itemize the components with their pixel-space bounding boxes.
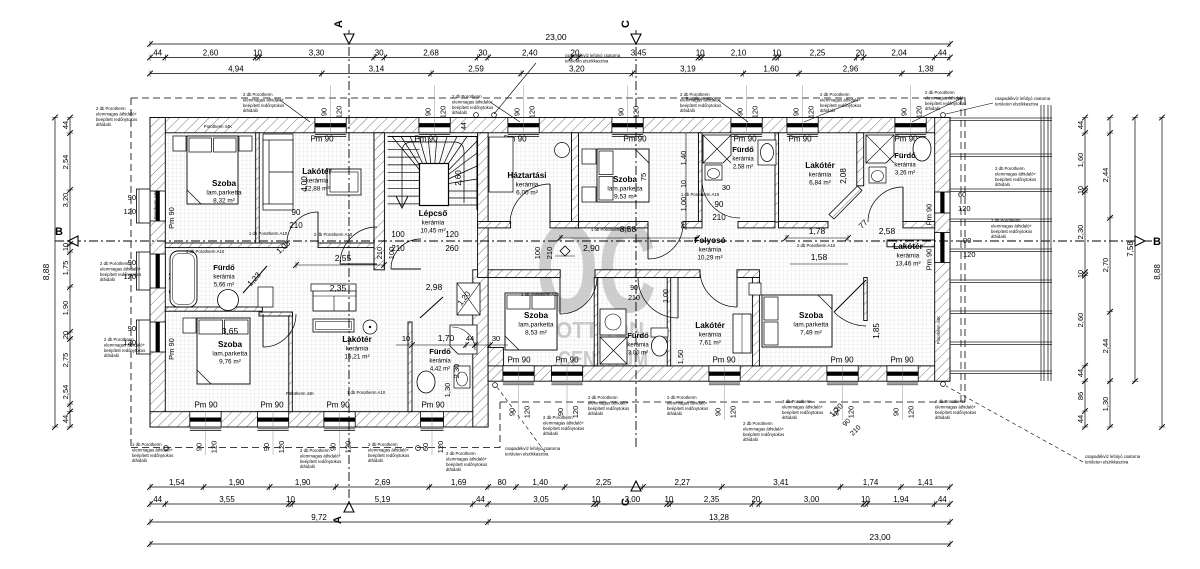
svg-text:áthidaló: áthidaló [104,353,120,358]
svg-text:23,00: 23,00 [869,532,891,542]
svg-text:2,96: 2,96 [843,65,859,74]
svg-text:Pm 90: Pm 90 [167,207,176,229]
svg-text:44: 44 [1076,121,1085,129]
svg-text:B: B [1153,236,1161,248]
svg-text:Lakótér: Lakótér [893,242,923,251]
svg-text:áthidaló: áthidaló [543,431,559,436]
svg-text:Pm 90: Pm 90 [167,338,176,360]
svg-text:Pm 90: Pm 90 [421,401,445,410]
svg-text:1 db Porotherm A10: 1 db Porotherm A10 [521,292,560,297]
svg-text:210: 210 [712,213,726,222]
svg-text:kerámia: kerámia [346,346,369,353]
svg-text:1,58: 1,58 [811,252,828,262]
svg-text:2 db Porotherm: 2 db Porotherm [995,166,1025,171]
svg-text:Fürdő: Fürdő [894,151,916,160]
svg-text:1,00: 1,00 [663,289,670,303]
svg-text:A: A [333,20,345,28]
svg-text:1,40: 1,40 [679,151,688,166]
svg-text:210: 210 [628,295,640,302]
svg-text:lam.parketta: lam.parketta [212,351,248,358]
svg-text:2,08: 2,08 [839,168,848,184]
svg-text:8,88: 8,88 [41,263,51,280]
svg-text:120: 120 [907,406,916,419]
svg-text:1,54: 1,54 [169,478,185,487]
svg-text:2 db Porotherm: 2 db Porotherm [667,395,697,400]
svg-text:2,68: 2,68 [423,49,439,58]
svg-text:1,75: 1,75 [61,261,70,276]
svg-text:7,58: 7,58 [1126,241,1135,257]
svg-text:elemmagas áthidaló+: elemmagas áthidaló+ [667,400,708,405]
svg-text:3,19: 3,19 [680,65,696,74]
svg-text:90: 90 [513,108,522,116]
svg-text:2 db Porotherm: 2 db Porotherm [680,92,710,97]
svg-text:2 db Porotherm: 2 db Porotherm [588,395,618,400]
svg-text:2 db Porotherm: 2 db Porotherm [368,442,398,447]
svg-text:C: C [620,20,632,28]
svg-text:áthidaló: áthidaló [925,106,941,111]
svg-text:2,04: 2,04 [891,49,907,58]
svg-text:áthidaló: áthidaló [243,108,259,113]
svg-text:1,50: 1,50 [676,350,685,365]
svg-text:beépített redőnytokos: beépített redőnytokos [995,177,1036,182]
svg-text:lam.parketta: lam.parketta [793,322,829,329]
svg-text:Szoba: Szoba [613,175,638,184]
svg-text:120: 120 [277,441,286,454]
svg-text:1 db Porotherm A10: 1 db Porotherm A10 [186,249,225,254]
svg-text:Porotherm 44K: Porotherm 44K [936,316,941,344]
svg-text:100: 100 [391,230,405,239]
svg-text:Pm 90: Pm 90 [830,356,854,365]
svg-text:2 db Porotherm A10: 2 db Porotherm A10 [797,243,836,248]
svg-text:Porotherm 44K: Porotherm 44K [204,124,232,129]
svg-text:80: 80 [498,478,507,487]
svg-text:2,60: 2,60 [454,170,463,186]
svg-text:6,00 m²: 6,00 m² [516,190,538,197]
svg-text:elemmagas áthidaló+: elemmagas áthidaló+ [991,223,1032,228]
svg-text:2 db Porotherm: 2 db Porotherm [935,399,965,404]
svg-text:Pm 90: Pm 90 [310,135,334,144]
svg-text:7,49 m²: 7,49 m² [800,330,822,337]
svg-text:120: 120 [528,106,537,119]
svg-text:120: 120 [335,106,344,119]
svg-text:120: 120 [436,441,445,454]
svg-text:1,30: 1,30 [1101,397,1110,412]
svg-text:13,28: 13,28 [709,513,730,522]
svg-text:2 db Porotherm: 2 db Porotherm [991,218,1021,223]
svg-text:2,90: 2,90 [583,243,600,253]
svg-text:44: 44 [466,334,474,343]
svg-text:2 db Porotherm: 2 db Porotherm [300,448,330,453]
svg-text:1,60: 1,60 [1076,153,1085,168]
svg-text:1,90: 1,90 [229,478,245,487]
svg-text:kerámia: kerámia [699,247,722,254]
svg-text:3,41: 3,41 [773,478,789,487]
svg-text:100: 100 [533,247,542,260]
svg-text:90: 90 [320,108,329,116]
svg-text:9,76 m²: 9,76 m² [219,359,241,366]
svg-text:Pm 90: Pm 90 [260,401,284,410]
svg-text:2,25: 2,25 [810,49,826,58]
svg-text:elemmagas áthidaló+: elemmagas áthidaló+ [100,266,141,271]
svg-text:elemmagas áthidaló+: elemmagas áthidaló+ [243,97,284,102]
svg-text:2,35: 2,35 [330,283,347,293]
svg-text:1 db Porotherm A10: 1 db Porotherm A10 [681,192,720,197]
svg-text:8,32 m²: 8,32 m² [213,198,235,205]
svg-text:2,40: 2,40 [522,49,538,58]
svg-text:beépített redőnytokos: beépített redőnytokos [782,410,823,415]
svg-text:2 db Porotherm A10: 2 db Porotherm A10 [314,232,353,237]
svg-text:2,30: 2,30 [1076,225,1085,240]
svg-text:beépített redőnytokos: beépített redőnytokos [100,272,141,277]
svg-text:3,26 m²: 3,26 m² [895,171,915,177]
svg-text:23,00: 23,00 [545,32,567,42]
svg-text:90: 90 [292,208,301,217]
svg-text:1,69: 1,69 [451,478,467,487]
svg-text:2 db Porotherm: 2 db Porotherm [243,92,273,97]
svg-text:beépített redőnytokos: beépített redőnytokos [743,432,784,437]
svg-text:elemmagas áthidaló+: elemmagas áthidaló+ [446,456,487,461]
svg-text:90: 90 [424,108,433,116]
svg-text:elemmagas áthidaló+: elemmagas áthidaló+ [680,97,721,102]
svg-text:elemmagas áthidaló+: elemmagas áthidaló+ [452,99,493,104]
svg-text:2,30: 2,30 [452,364,461,379]
svg-text:120: 120 [445,230,459,239]
svg-text:120: 120 [729,406,738,419]
svg-text:2,55: 2,55 [335,253,352,263]
svg-text:2,54: 2,54 [61,155,70,170]
svg-text:100: 100 [387,247,396,260]
svg-text:260: 260 [445,244,459,253]
svg-text:Lakótér: Lakótér [805,161,835,170]
svg-text:elemmagas áthidaló+: elemmagas áthidaló+ [588,400,629,405]
svg-text:10: 10 [664,495,673,504]
svg-text:120: 120 [807,106,816,119]
svg-text:120: 120 [915,106,924,119]
svg-text:kerámia: kerámia [699,332,722,339]
svg-text:elemmagas áthidaló+: elemmagas áthidaló+ [300,453,341,458]
svg-text:44: 44 [938,495,947,504]
svg-text:beépített redőnytokos: beépített redőnytokos [452,105,493,110]
svg-text:120: 120 [439,106,448,119]
svg-text:2 db Porotherm: 2 db Porotherm [543,415,573,420]
svg-text:44: 44 [461,122,468,130]
svg-text:Szoba: Szoba [212,179,237,188]
svg-text:1,74: 1,74 [863,478,879,487]
svg-text:9,72: 9,72 [311,513,327,522]
svg-text:44: 44 [153,49,162,58]
svg-text:áthidaló: áthidaló [96,122,112,127]
svg-text:áthidaló: áthidaló [446,467,462,472]
svg-text:Lépcső: Lépcső [419,209,448,218]
svg-text:csapadékvíz lefolyó csatorna: csapadékvíz lefolyó csatorna [505,446,561,451]
svg-text:10: 10 [61,243,70,251]
svg-text:áthidaló: áthidaló [995,182,1011,187]
svg-text:Pm 90: Pm 90 [623,135,647,144]
svg-text:területen elszikkasztva: területen elszikkasztva [1085,459,1129,464]
svg-text:8,53 m²: 8,53 m² [525,330,547,337]
svg-text:2,60: 2,60 [1076,313,1085,328]
svg-text:2 db Porotherm: 2 db Porotherm [743,421,773,426]
svg-text:86: 86 [1076,392,1085,400]
svg-text:30: 30 [492,334,500,343]
svg-text:B: B [55,226,63,238]
svg-text:Fürdő: Fürdő [429,347,451,356]
svg-text:Pm 90: Pm 90 [712,356,736,365]
svg-text:44: 44 [938,49,947,58]
svg-text:90: 90 [736,108,745,116]
svg-text:területen elszikkasztva: területen elszikkasztva [565,58,609,63]
svg-text:beépített redőnytokos: beépített redőnytokos [300,459,341,464]
svg-text:10: 10 [772,49,781,58]
svg-text:elemmagas áthidaló+: elemmagas áthidaló+ [782,404,823,409]
svg-text:30: 30 [375,49,384,58]
svg-text:Lakótér: Lakótér [302,167,332,176]
svg-text:áthidaló: áthidaló [588,411,604,416]
svg-text:10: 10 [681,180,688,188]
svg-text:30: 30 [478,49,487,58]
svg-text:1,90: 1,90 [295,478,311,487]
svg-text:2,70: 2,70 [1101,258,1110,273]
svg-text:2 db Porotherm: 2 db Porotherm [782,399,812,404]
svg-text:1,30: 1,30 [443,383,452,398]
svg-text:10: 10 [1076,270,1085,278]
svg-text:áthidaló: áthidaló [368,458,384,463]
svg-text:90: 90 [792,108,801,116]
svg-text:3,65: 3,65 [222,326,239,336]
svg-text:2,58: 2,58 [879,226,896,236]
svg-text:10: 10 [591,495,600,504]
svg-text:kerámia: kerámia [213,275,235,281]
svg-text:13,46 m²: 13,46 m² [895,261,920,268]
svg-text:elemmagas áthidaló+: elemmagas áthidaló+ [104,342,145,347]
svg-text:lam.parketta: lam.parketta [607,186,643,193]
svg-text:90: 90 [128,324,136,333]
svg-text:áthidaló: áthidaló [452,110,468,115]
svg-text:Porotherm 44K: Porotherm 44K [286,391,314,396]
svg-text:elemmagas áthidaló+: elemmagas áthidaló+ [368,447,409,452]
svg-text:120: 120 [958,204,971,213]
svg-text:3,00 m²: 3,00 m² [628,351,648,357]
svg-text:áthidaló: áthidaló [667,411,683,416]
svg-text:90: 90 [617,108,626,116]
svg-text:90: 90 [963,236,971,245]
svg-text:1,94: 1,94 [893,495,909,504]
svg-text:2 db Porotherm: 2 db Porotherm [104,337,134,342]
svg-text:90: 90 [900,108,909,116]
svg-text:Fürdő: Fürdő [732,145,754,154]
svg-text:2,00: 2,00 [625,495,641,504]
svg-text:2 db Porotherm: 2 db Porotherm [96,106,126,111]
svg-text:90: 90 [262,443,271,451]
svg-text:120: 120 [847,406,856,419]
svg-text:3,00: 3,00 [804,495,820,504]
svg-text:elemmagas áthidaló+: elemmagas áthidaló+ [96,111,137,116]
svg-text:kerámia: kerámia [516,182,539,189]
svg-text:5,19: 5,19 [375,495,391,504]
svg-text:2,54: 2,54 [61,385,70,400]
svg-text:Porotherm 44K: Porotherm 44K [153,191,158,219]
svg-text:beépített redőnytokos: beépített redőnytokos [680,103,721,108]
svg-text:1,38: 1,38 [918,65,934,74]
svg-text:beépített redőnytokos: beépített redőnytokos [104,348,145,353]
svg-text:beépített redőnytokos: beépített redőnytokos [446,462,487,467]
svg-text:csapadékvíz lefolyó csatorna: csapadékvíz lefolyó csatorna [995,96,1051,101]
svg-text:területen elszikkasztva: területen elszikkasztva [995,101,1039,106]
svg-text:90: 90 [630,285,638,292]
svg-text:210: 210 [545,247,554,260]
svg-text:7,61 m²: 7,61 m² [699,340,721,347]
svg-text:20: 20 [681,221,688,229]
svg-text:3,20: 3,20 [61,193,70,208]
svg-text:75: 75 [639,173,648,181]
svg-text:1 db Porotherm A10: 1 db Porotherm A10 [591,227,630,232]
svg-text:1,90: 1,90 [61,301,70,316]
svg-text:elemmagas áthidaló+: elemmagas áthidaló+ [543,420,584,425]
svg-text:2,75: 2,75 [61,353,70,368]
svg-text:2,27: 2,27 [675,478,691,487]
svg-text:áthidaló: áthidaló [300,464,316,469]
svg-text:2 db Porotherm: 2 db Porotherm [452,94,482,99]
svg-text:10: 10 [286,495,295,504]
svg-text:Pm 90: Pm 90 [194,401,218,410]
svg-text:beépített redőnytokos: beépített redőnytokos [925,101,966,106]
svg-text:kerámia: kerámia [627,343,649,349]
svg-text:90: 90 [195,443,204,451]
svg-text:90: 90 [128,193,136,202]
svg-text:2 db Porotherm: 2 db Porotherm [925,90,955,95]
svg-text:90: 90 [892,408,901,416]
svg-text:2,60: 2,60 [203,49,219,58]
svg-text:3,14: 3,14 [369,65,385,74]
svg-text:2,25: 2,25 [596,478,612,487]
svg-text:kerámia: kerámia [422,220,445,227]
svg-text:beépített redőnytokos: beépített redőnytokos [935,410,976,415]
svg-text:elemmagas áthidaló+: elemmagas áthidaló+ [743,426,784,431]
svg-text:elemmagas áthidaló+: elemmagas áthidaló+ [925,95,966,100]
svg-text:elemmagas áthidaló+: elemmagas áthidaló+ [995,171,1036,176]
svg-text:4,00: 4,00 [300,176,309,192]
svg-text:Pm 90: Pm 90 [788,135,812,144]
svg-text:8,88: 8,88 [1153,264,1162,280]
svg-text:2 db Porotherm: 2 db Porotherm [100,261,130,266]
svg-text:Pm 90: Pm 90 [555,356,579,365]
svg-text:3,05: 3,05 [533,495,549,504]
svg-text:10,29 m²: 10,29 m² [697,255,722,262]
svg-text:20: 20 [751,495,760,504]
svg-text:áthidaló: áthidaló [743,437,759,442]
svg-text:90: 90 [714,408,723,416]
svg-text:áthidaló: áthidaló [100,277,116,282]
svg-text:120: 120 [210,441,219,454]
svg-text:kerámia: kerámia [809,172,832,179]
svg-text:10,45 m²: 10,45 m² [420,228,445,235]
svg-text:2 db Porotherm: 2 db Porotherm [446,451,476,456]
svg-text:2,44: 2,44 [1101,168,1110,183]
svg-text:áthidaló: áthidaló [132,458,148,463]
svg-text:2,44: 2,44 [1101,339,1110,354]
svg-text:44: 44 [476,495,485,504]
svg-text:áthidaló: áthidaló [782,415,798,420]
svg-text:A: A [332,516,344,524]
svg-text:kerámia: kerámia [732,157,754,163]
svg-text:Lakótér: Lakótér [342,335,372,344]
svg-text:44: 44 [1076,369,1085,377]
svg-text:1 db Porotherm A10: 1 db Porotherm A10 [249,231,288,236]
svg-text:3,30: 3,30 [309,49,325,58]
svg-text:beépített redőnytokos: beépített redőnytokos [96,117,137,122]
svg-text:10: 10 [696,49,705,58]
svg-text:1,85: 1,85 [872,323,881,339]
svg-text:2,58 m²: 2,58 m² [733,165,753,171]
svg-text:44: 44 [61,121,70,129]
svg-text:elemmagas áthidaló+: elemmagas áthidaló+ [820,97,861,102]
svg-text:lam.parketta: lam.parketta [206,190,242,197]
svg-text:90: 90 [715,200,724,209]
svg-text:Folyosó: Folyosó [694,236,725,245]
svg-text:1,00: 1,00 [679,197,688,212]
svg-text:kerámia: kerámia [897,253,920,260]
svg-text:beépített redőnytokos: beépített redőnytokos [132,453,173,458]
svg-text:Pm 90: Pm 90 [733,135,757,144]
svg-text:4,94: 4,94 [228,65,244,74]
svg-text:Háztartási: Háztartási [507,171,546,180]
svg-text:1,70: 1,70 [438,333,455,343]
svg-text:1,40: 1,40 [532,478,548,487]
svg-text:6,84 m²: 6,84 m² [809,180,831,187]
svg-text:20: 20 [856,49,865,58]
svg-text:10: 10 [402,334,410,343]
svg-text:kerámia: kerámia [306,178,329,185]
svg-text:90: 90 [329,443,338,451]
svg-text:területen elszikkasztva: területen elszikkasztva [505,451,549,456]
svg-text:Szoba: Szoba [524,311,549,320]
svg-text:2 db Porotherm: 2 db Porotherm [820,92,850,97]
svg-text:1 db Porotherm A10: 1 db Porotherm A10 [347,390,386,395]
svg-text:2,35: 2,35 [704,495,720,504]
svg-text:lam.parketta: lam.parketta [518,322,554,329]
svg-text:1,60: 1,60 [763,65,779,74]
svg-text:Pm 90: Pm 90 [326,401,350,410]
svg-text:44: 44 [153,495,162,504]
svg-text:120: 120 [344,441,353,454]
svg-text:csapadékvíz lefolyó csatorna: csapadékvíz lefolyó csatorna [565,53,621,58]
svg-text:5,66 m²: 5,66 m² [214,283,234,289]
svg-text:Szoba: Szoba [218,340,243,349]
svg-text:áthidaló: áthidaló [680,108,696,113]
svg-text:44: 44 [1076,415,1085,423]
svg-text:20: 20 [61,331,70,339]
svg-text:beépített redőnytokos: beépített redőnytokos [543,426,584,431]
svg-text:elemmagas áthidaló+: elemmagas áthidaló+ [935,404,976,409]
svg-text:Lakótér: Lakótér [695,321,725,330]
svg-text:60: 60 [421,443,430,451]
svg-text:beépített redőnytokos: beépített redőnytokos [991,229,1032,234]
svg-text:kerámia: kerámia [894,163,916,169]
svg-text:Fürdő: Fürdő [627,331,649,340]
svg-text:beépített redőnytokos: beépített redőnytokos [368,453,409,458]
svg-text:2,59: 2,59 [468,65,484,74]
svg-text:10: 10 [861,495,870,504]
svg-text:áthidaló: áthidaló [991,234,1007,239]
svg-text:4,42 m²: 4,42 m² [430,367,450,373]
svg-text:beépített redőnytokos: beépített redőnytokos [588,406,629,411]
svg-text:120: 120 [123,207,136,216]
svg-text:15,21 m²: 15,21 m² [344,354,369,361]
svg-text:210: 210 [289,221,303,230]
svg-text:2,69: 2,69 [375,478,391,487]
svg-text:10: 10 [1076,186,1085,194]
svg-text:44: 44 [61,415,70,423]
